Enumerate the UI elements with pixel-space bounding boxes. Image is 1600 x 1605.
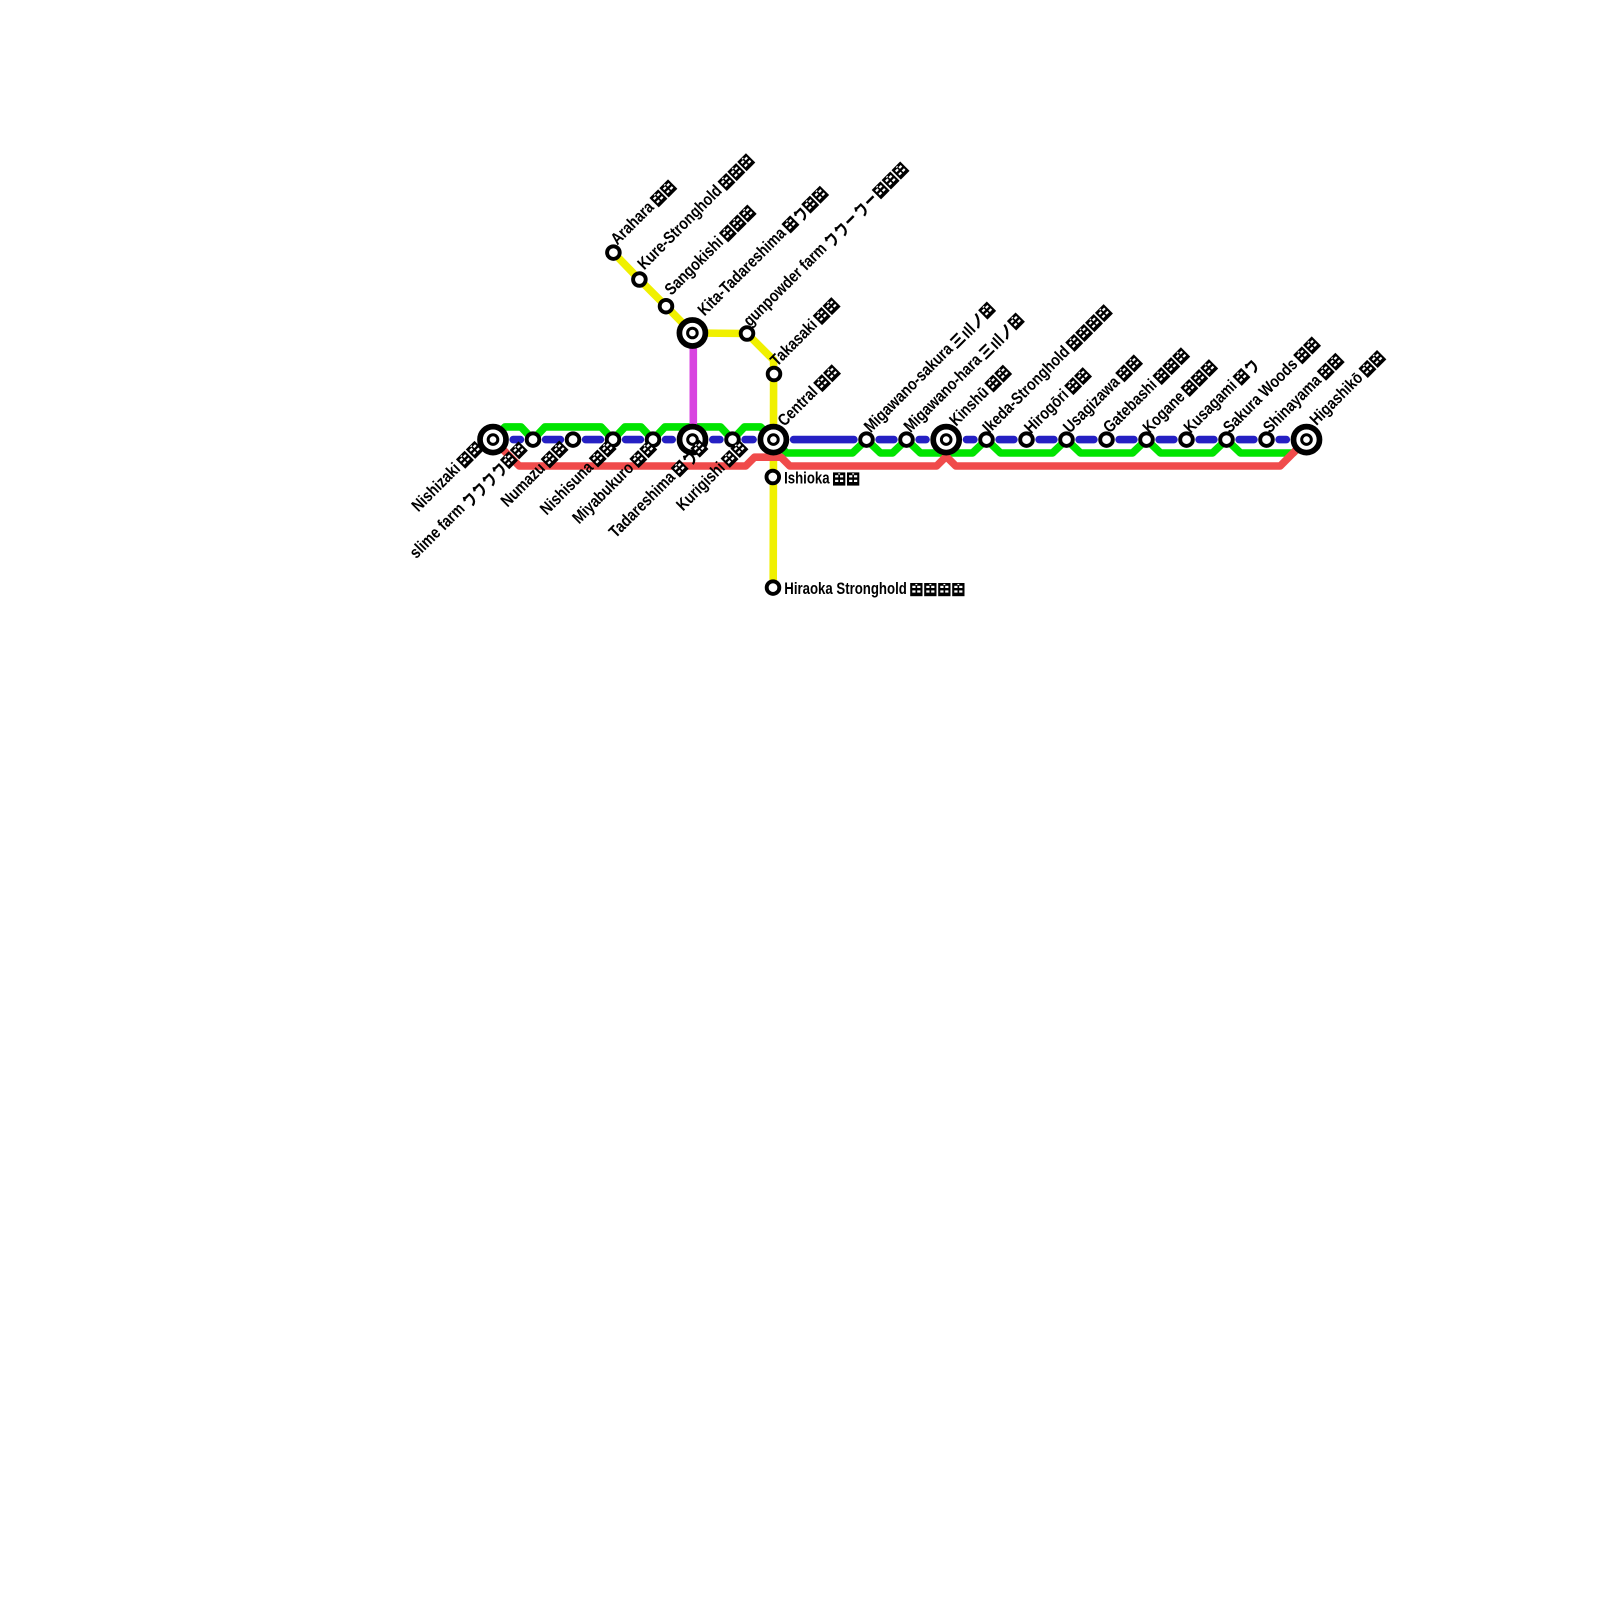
station Sangokishi <box>660 300 673 313</box>
label Kinshū <box>945 362 1013 430</box>
station Tadareshima (interchange) <box>680 427 706 453</box>
label Hiraoka Stronghold <box>784 579 964 598</box>
station Nishizaki (interchange) <box>480 427 506 453</box>
label Migawano-sakura <box>860 299 997 436</box>
label Ishioka <box>784 468 859 487</box>
station Shinayama <box>1260 433 1273 446</box>
blue dashed line <box>513 436 1286 444</box>
label Sangokishi <box>661 202 758 299</box>
station slime farm <box>527 433 540 446</box>
label Nishisuna <box>536 437 618 519</box>
label Migawano-hara <box>900 310 1026 436</box>
label Takasaki <box>766 294 842 370</box>
label Kogane <box>1139 356 1220 437</box>
station gunpowder farm <box>741 327 754 340</box>
svg-text:Ishioka: Ishioka <box>784 468 830 487</box>
label gunpowder farm <box>739 159 910 330</box>
label Kure-Stronghold <box>634 150 757 273</box>
station Ikeda-Stronghold <box>980 433 993 446</box>
red line <box>493 440 1307 466</box>
station Ishioka <box>767 471 780 484</box>
label Higashikō <box>1306 347 1388 429</box>
svg-text:Hiraoka Stronghold: Hiraoka Stronghold <box>784 579 907 598</box>
label Kusagami <box>1180 357 1260 437</box>
station Gatebashi <box>1100 433 1113 446</box>
label Miyabukuro <box>569 437 659 527</box>
label Sakura Woods <box>1219 334 1322 437</box>
station Kurigishi <box>726 433 739 446</box>
label Central <box>774 361 843 430</box>
station Kusagami <box>1180 433 1193 446</box>
station Kita-Tadareshima (interchange) <box>679 320 705 346</box>
station Central (interchange) <box>760 427 786 453</box>
station Migawano-sakura <box>860 433 873 446</box>
label Arahara <box>607 177 679 249</box>
station Kinshū (interchange) <box>933 427 959 453</box>
label slime farm <box>406 438 530 562</box>
station Migawano-hara <box>900 433 913 446</box>
station Takasaki <box>768 368 781 381</box>
station Hiraoka Stronghold <box>767 581 780 594</box>
station Higashikō (interchange) <box>1294 427 1320 453</box>
label Kita-Tadareshima <box>694 183 831 320</box>
label Ikeda-Stronghold <box>979 301 1115 437</box>
station Usagizawa <box>1060 433 1073 446</box>
label Numazu <box>497 438 570 511</box>
label Usagizawa <box>1059 352 1144 437</box>
label Kurigishi <box>672 437 749 514</box>
station Kure-Stronghold <box>633 273 646 286</box>
label Hirogōri <box>1020 364 1093 437</box>
label Shinayama <box>1259 350 1346 437</box>
station Miyabukuro <box>647 433 660 446</box>
station Hirogōri <box>1020 433 1033 446</box>
station Sakura Woods <box>1220 433 1233 446</box>
station Kogane <box>1140 433 1153 446</box>
station Arahara <box>607 246 620 259</box>
station Numazu <box>567 433 580 446</box>
label Tadareshima <box>605 437 710 542</box>
station Nishisuna <box>607 433 620 446</box>
magenta line <box>689 334 697 438</box>
label Gatebashi <box>1099 344 1191 436</box>
green line <box>493 427 1307 453</box>
yellow line <box>613 253 773 588</box>
label Nishizaki <box>408 438 485 515</box>
